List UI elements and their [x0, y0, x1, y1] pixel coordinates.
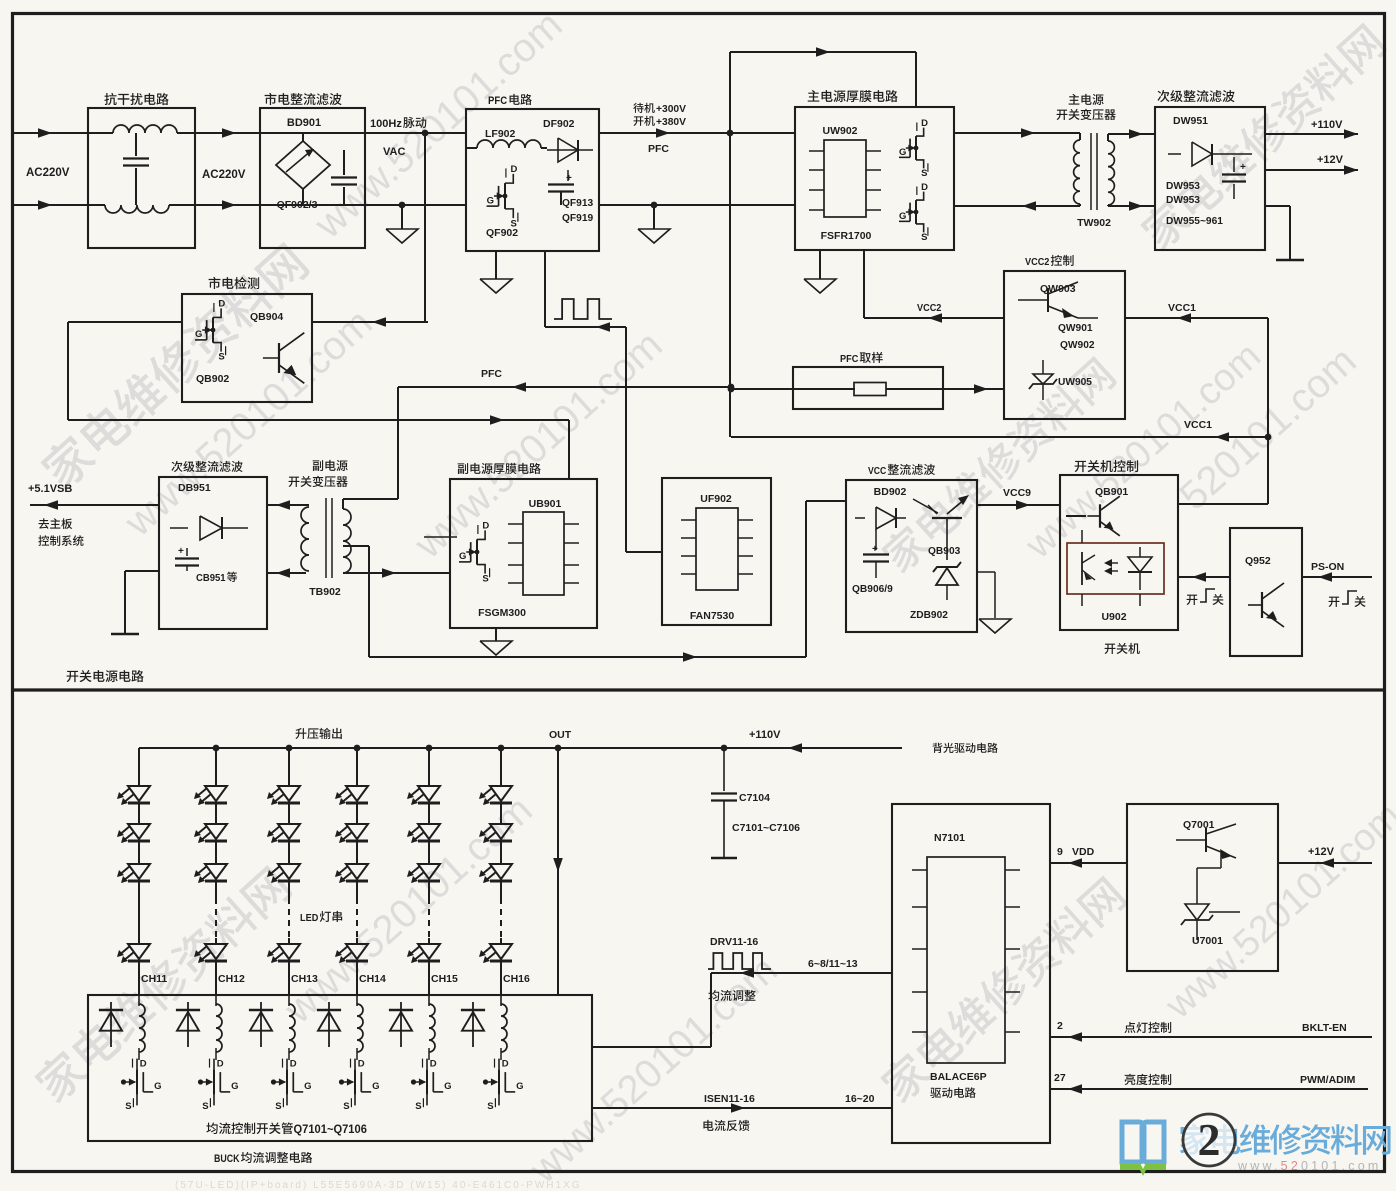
svg-text:BUCK: BUCK [214, 1153, 240, 1165]
svg-text:D: D [511, 164, 518, 175]
svg-text:QB903: QB903 [928, 546, 961, 557]
svg-text:ISEN11-16: ISEN11-16 [704, 1093, 755, 1105]
svg-text:N7101: N7101 [934, 832, 965, 844]
svg-text:QW902: QW902 [1060, 340, 1095, 351]
svg-text:+: + [178, 546, 184, 557]
svg-text:QF913: QF913 [562, 198, 593, 209]
svg-text:CB951: CB951 [196, 573, 226, 584]
svg-text:D: D [921, 118, 928, 129]
svg-text:TW902: TW902 [1077, 217, 1111, 229]
svg-text:U902: U902 [1101, 611, 1126, 623]
svg-text:S: S [487, 1101, 493, 1112]
svg-text:AC220V: AC220V [202, 169, 246, 181]
svg-text:PS-ON: PS-ON [1311, 561, 1344, 573]
svg-text:G: G [195, 329, 202, 340]
svg-text:6~8/11~13: 6~8/11~13 [808, 958, 858, 970]
svg-text:AC220V: AC220V [26, 167, 70, 179]
svg-text:G: G [154, 1081, 161, 1092]
svg-text:QB902: QB902 [196, 373, 229, 385]
svg-text:+: + [1240, 162, 1246, 173]
svg-text:VCC2: VCC2 [1025, 256, 1050, 268]
svg-text:VDD: VDD [1072, 846, 1095, 858]
svg-text:UB901: UB901 [529, 498, 562, 510]
svg-text:D: D [218, 299, 225, 310]
svg-text:G: G [304, 1081, 311, 1092]
svg-text:+110V: +110V [749, 729, 781, 741]
svg-text:D: D [430, 1059, 437, 1070]
svg-text:VCC: VCC [868, 465, 887, 477]
svg-text:27: 27 [1054, 1072, 1066, 1084]
svg-text:VAC: VAC [383, 146, 405, 158]
svg-text:G: G [516, 1081, 523, 1092]
svg-text:UW905: UW905 [1058, 377, 1092, 388]
svg-text:QB904: QB904 [250, 311, 283, 323]
svg-text:DRV11-16: DRV11-16 [710, 936, 758, 948]
svg-text:UW902: UW902 [822, 125, 857, 137]
svg-text:+: + [566, 173, 572, 184]
svg-text:G: G [459, 551, 466, 562]
svg-text:Q952: Q952 [1245, 555, 1271, 567]
svg-text:Q7101~Q7106: Q7101~Q7106 [294, 1124, 367, 1136]
svg-text:16~20: 16~20 [845, 1093, 875, 1105]
svg-text:D: D [482, 521, 489, 532]
svg-text:QB906/9: QB906/9 [852, 584, 893, 595]
svg-text:DW953: DW953 [1166, 195, 1200, 206]
svg-text:G: G [899, 147, 906, 158]
svg-text:QB901: QB901 [1095, 486, 1128, 498]
svg-text:VCC9: VCC9 [1003, 487, 1031, 499]
svg-text:CH16: CH16 [503, 973, 530, 985]
svg-text:TB902: TB902 [309, 586, 341, 598]
svg-text:S: S [482, 574, 488, 585]
svg-text:G: G [231, 1081, 238, 1092]
svg-text:FSFR1700: FSFR1700 [821, 230, 872, 242]
svg-text:+12V: +12V [1308, 846, 1335, 858]
svg-text:PFC: PFC [488, 95, 507, 107]
svg-text:D: D [921, 182, 928, 193]
svg-text:UF902: UF902 [700, 493, 732, 505]
svg-text:S: S [921, 168, 927, 179]
svg-text:www.520101.com: www.520101.com [1237, 1159, 1381, 1173]
svg-text:QW901: QW901 [1058, 323, 1093, 334]
svg-text:PWM/ADIM: PWM/ADIM [1300, 1074, 1356, 1086]
svg-text:FAN7530: FAN7530 [690, 610, 735, 622]
svg-text:S: S [415, 1101, 421, 1112]
svg-text:(57U-LED)(IP+board) L55E5690A: (57U-LED)(IP+board) L55E5690A-3D (W15) 4… [175, 1180, 582, 1191]
svg-text:DW953: DW953 [1166, 181, 1200, 192]
svg-text:CH13: CH13 [291, 973, 318, 985]
svg-text:VCC1: VCC1 [1184, 419, 1212, 431]
svg-text:G: G [372, 1081, 379, 1092]
svg-text:G: G [444, 1081, 451, 1092]
svg-text:PFC: PFC [648, 143, 669, 155]
svg-text:BALACE6P: BALACE6P [930, 1071, 987, 1083]
svg-text:BD902: BD902 [874, 486, 907, 498]
svg-text:DF902: DF902 [543, 118, 575, 130]
svg-text:2: 2 [1057, 1020, 1063, 1032]
svg-text:DW955~961: DW955~961 [1166, 216, 1223, 227]
svg-text:C7101~C7106: C7101~C7106 [732, 822, 800, 834]
svg-text:+380V: +380V [656, 116, 686, 128]
svg-text:+12V: +12V [1317, 154, 1344, 166]
svg-text:G: G [899, 211, 906, 222]
svg-text:100Hz: 100Hz [370, 118, 402, 130]
svg-text:D: D [290, 1059, 297, 1070]
svg-text:CH12: CH12 [218, 973, 245, 985]
svg-text:CH15: CH15 [431, 973, 458, 985]
svg-text:BKLT-EN: BKLT-EN [1302, 1022, 1347, 1034]
svg-text:+110V: +110V [1311, 119, 1343, 131]
svg-text:PFC: PFC [840, 353, 859, 365]
svg-text:LF902: LF902 [485, 128, 516, 140]
svg-text:D: D [502, 1059, 509, 1070]
svg-text:+: + [872, 544, 878, 555]
svg-text:S: S [921, 232, 927, 243]
svg-text:+300V: +300V [656, 103, 686, 115]
svg-text:DW951: DW951 [1173, 115, 1208, 127]
svg-text:ZDB902: ZDB902 [910, 610, 948, 621]
svg-text:S: S [125, 1101, 131, 1112]
svg-text:CH11: CH11 [141, 973, 167, 985]
svg-text:D: D [358, 1059, 365, 1070]
svg-text:D: D [217, 1059, 224, 1070]
svg-text:QF919: QF919 [562, 213, 593, 224]
svg-text:S: S [343, 1101, 349, 1112]
svg-text:+5.1VSB: +5.1VSB [28, 483, 72, 495]
svg-text:C7104: C7104 [739, 792, 770, 804]
svg-text:PFC: PFC [481, 368, 502, 380]
svg-text:QF902: QF902 [486, 227, 518, 239]
svg-text:Q7001: Q7001 [1183, 819, 1215, 831]
svg-text:D: D [140, 1059, 147, 1070]
svg-text:OUT: OUT [549, 729, 572, 741]
svg-text:G: G [487, 195, 494, 206]
svg-text:9: 9 [1057, 846, 1063, 858]
svg-text:VCC2: VCC2 [917, 302, 942, 314]
svg-text:2: 2 [1198, 1114, 1221, 1165]
svg-text:DB951: DB951 [178, 482, 211, 494]
svg-text:VCC1: VCC1 [1168, 302, 1196, 314]
svg-text:S: S [275, 1101, 281, 1112]
svg-text:BD901: BD901 [287, 117, 321, 129]
svg-text:S: S [202, 1101, 208, 1112]
svg-text:FSGM300: FSGM300 [478, 607, 526, 619]
svg-text:S: S [218, 352, 224, 363]
svg-text:U7001: U7001 [1192, 935, 1223, 947]
svg-text:LED: LED [300, 912, 319, 924]
svg-text:CH14: CH14 [359, 973, 386, 985]
